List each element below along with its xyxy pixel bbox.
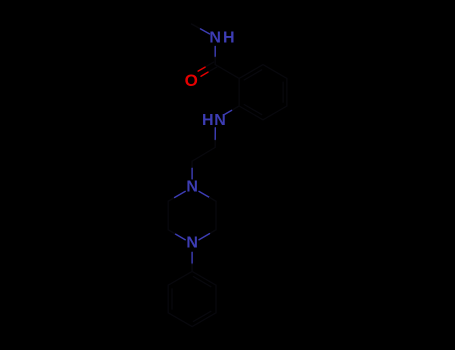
- bond CH3-N (methyl to amide NH): [192, 24, 201, 29]
- benzene inner double-bond line A4-A5: [282, 82, 284, 102]
- double bond C=O upper line: [208, 67, 217, 72]
- piperazine bond C6-N1: [168, 198, 174, 202]
- phenyl ring bond P2-P3: [215, 285, 217, 313]
- benzene ring bond A3-A4: [263, 106, 287, 120]
- benzene ring bond A2-A3: [239, 106, 263, 120]
- double bond C=O lower line: [205, 62, 214, 67]
- svg-text:N: N: [186, 235, 198, 252]
- bond N4-phenyl ipso: [191, 252, 193, 264]
- phenyl ring bond P4-P5: [168, 313, 192, 327]
- bond C(=O)-C1 ring attach: [215, 65, 239, 79]
- phenyl inner double-bond line P3-P4: [193, 311, 211, 321]
- svg-text:H: H: [202, 112, 214, 129]
- benzene ring bond A1-A2: [238, 78, 240, 106]
- bond N-C (amide NH to carbonyl C): [214, 47, 216, 58]
- bond NH-CH2: [214, 128, 216, 141]
- svg-text:H: H: [223, 30, 235, 47]
- piperazine bond C5-C6: [167, 201, 169, 230]
- piperazine bond N4-C5: [175, 234, 186, 240]
- phenyl ring bond P1-P2: [192, 271, 216, 285]
- benzene inner double-bond line A2-A3: [244, 105, 262, 115]
- piperazine bond C2-C3: [215, 201, 217, 230]
- bond C2-NH (ring to secondary amine): [232, 106, 240, 110]
- svg-text:N: N: [214, 112, 226, 129]
- phenyl inner double-bond line P1-P2: [193, 277, 211, 287]
- phenyl ring bond P3-P4: [192, 313, 216, 327]
- phenyl ring bond P6-P1: [168, 271, 192, 285]
- benzene ring bond A6-A1: [239, 65, 263, 79]
- piperazine bond C3-N4: [210, 230, 217, 234]
- piperazine bond N1-C2: [199, 191, 210, 197]
- svg-text:N: N: [209, 30, 221, 47]
- benzene ring bond A4-A5: [286, 78, 288, 106]
- bond CH2-N1 piperazine: [191, 161, 193, 168]
- svg-text:O: O: [185, 71, 198, 90]
- benzene ring bond A5-A6: [263, 65, 287, 79]
- svg-text:N: N: [186, 179, 198, 196]
- benzene inner double-bond line A6-A1: [244, 70, 262, 80]
- bond CH2-CH2: [192, 147, 215, 161]
- phenyl inner double-bond line P5-P6: [171, 289, 173, 309]
- phenyl ring bond P5-P6: [167, 285, 169, 313]
